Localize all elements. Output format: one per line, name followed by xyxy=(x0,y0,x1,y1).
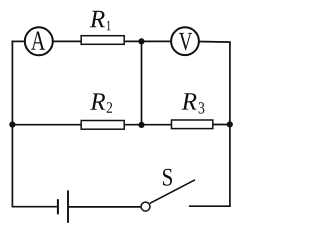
wire R1 to voltmeter xyxy=(125,40,172,42)
wire battery to switch xyxy=(69,206,141,208)
resistor R1 xyxy=(81,36,124,45)
wire bottom left xyxy=(12,206,57,208)
node junction middle-left xyxy=(9,122,15,128)
node junction middle xyxy=(138,122,144,128)
node junction top xyxy=(138,38,144,44)
resistor R2 xyxy=(81,121,124,130)
wire R3 to right xyxy=(213,124,230,126)
label R3 xyxy=(182,93,205,113)
label R1 xyxy=(90,11,111,30)
wire R2 to R3 xyxy=(125,124,172,126)
wire inner vertical xyxy=(141,41,143,125)
wire middle row left xyxy=(12,124,82,126)
resistor R3 xyxy=(172,120,213,129)
voltmeter V xyxy=(171,27,199,55)
wire ammeter to R1 xyxy=(54,40,82,42)
label R2 xyxy=(90,93,112,112)
wire voltmeter to top-right corner xyxy=(199,41,231,44)
ammeter A xyxy=(25,27,53,55)
battery cell xyxy=(58,190,68,222)
wire top-left to ammeter xyxy=(12,40,25,42)
wire right vertical xyxy=(229,41,231,207)
node junction right xyxy=(227,121,233,127)
switch S xyxy=(141,180,231,211)
label S xyxy=(163,169,172,186)
wire left vertical xyxy=(11,41,13,208)
